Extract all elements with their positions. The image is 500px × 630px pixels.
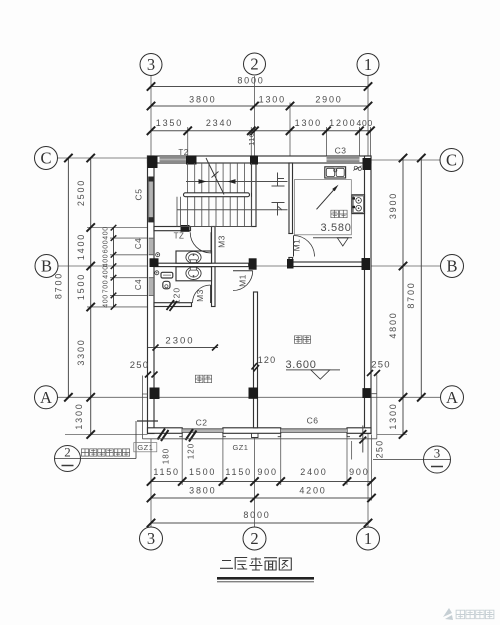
axis line A horizontal [58, 396, 441, 398]
left extension lines [87, 227, 148, 229]
svg-text:4800: 4800 [388, 311, 398, 338]
room label kitchen (chufang) [331, 210, 339, 218]
svg-text:M3: M3 [195, 289, 205, 302]
kitchen sink basin right [336, 168, 344, 176]
axis line C right segment [371, 159, 440, 161]
svg-text:400: 400 [103, 294, 110, 307]
top extension lines [187, 127, 189, 156]
svg-text:8000: 8000 [237, 76, 264, 86]
svg-text:2400: 2400 [300, 467, 327, 477]
kitchen level line [313, 237, 352, 239]
break mark bathroom bottom wall [167, 300, 175, 310]
title er-ceng-ping-mian-tu [220, 561, 233, 569]
kitchen inner floor rectangle [294, 180, 351, 235]
svg-text:A: A [446, 388, 458, 407]
svg-text:1400: 1400 [76, 233, 86, 260]
stair break diagonal [206, 158, 224, 195]
kitchen stove knobs [353, 197, 355, 199]
svg-text:600: 600 [103, 240, 110, 253]
axis bubble B left [35, 255, 58, 278]
living level triangle [311, 370, 330, 379]
svg-text:1350: 1350 [156, 118, 183, 128]
svg-text:120: 120 [186, 443, 195, 459]
svg-text:C2: C2 [196, 418, 208, 428]
svg-text:3: 3 [434, 446, 441, 461]
axis line B passage segment [257, 265, 290, 267]
svg-text:3: 3 [147, 529, 155, 548]
kitchen direction arrow [317, 187, 337, 209]
svg-text:GZ1: GZ1 [233, 443, 249, 452]
dim 250 bottom-right line [362, 426, 364, 453]
bathroom floor drain lower [155, 271, 159, 275]
stair label up (shang) [272, 173, 285, 187]
bathroom squat toilet [163, 281, 170, 289]
door M1 kitchen arc [294, 236, 315, 257]
detail bubble right stub [351, 441, 353, 460]
leader line detail bubble left [55, 458, 137, 460]
column top-right corner [363, 158, 372, 170]
svg-text:C: C [446, 151, 457, 170]
svg-text:1: 1 [364, 55, 372, 74]
svg-text:400: 400 [103, 254, 110, 267]
window C3 top wall [327, 158, 360, 161]
bathroom upper basin [186, 251, 201, 263]
axis line 3 vertical [150, 76, 152, 156]
svg-text:C4: C4 [134, 279, 143, 290]
wall kitchen left door jamb caps [288, 233, 293, 235]
door M3 upper leaf [210, 232, 212, 253]
wall kitchen left upper [289, 163, 293, 234]
svg-text:TZ: TZ [174, 232, 185, 241]
axis bubble A left [35, 386, 58, 409]
watermark text [456, 610, 465, 619]
svg-text:900: 900 [349, 467, 369, 477]
title underline thin [217, 581, 314, 583]
column stair bottom [181, 225, 190, 232]
svg-text:2900: 2900 [315, 95, 342, 105]
door M1 hall arc [233, 271, 253, 291]
right dimension chain line [402, 158, 404, 435]
left inner dimension chain [113, 228, 115, 307]
svg-text:3.600: 3.600 [285, 359, 316, 371]
wall middle vertical [254, 292, 258, 428]
axis line B right segment [371, 265, 441, 267]
GZ1 break mark left a [158, 429, 166, 440]
svg-text:GZ1: GZ1 [137, 443, 153, 452]
svg-text:4200: 4200 [299, 486, 326, 496]
top dimension line row2 [151, 105, 368, 107]
wall bathroom bottom [154, 303, 192, 307]
svg-text:1150: 1150 [153, 467, 180, 477]
door M1 kitchen leaf [293, 236, 295, 257]
svg-text:C6: C6 [307, 416, 319, 426]
svg-text:400: 400 [357, 118, 374, 128]
axis line B left segment [58, 265, 148, 267]
svg-text:8700: 8700 [406, 281, 416, 308]
svg-text:120: 120 [258, 355, 277, 365]
wall kitchen left stub [289, 258, 293, 263]
top dimension line row3 [151, 130, 371, 132]
column middle axis A [249, 388, 259, 399]
stair direction line up [186, 181, 288, 183]
bathroom floor drain upper [156, 253, 160, 257]
wall axis B kitchen segment [288, 262, 365, 267]
bathroom lower vanity counter [176, 267, 212, 281]
svg-text:2500: 2500 [76, 179, 86, 206]
kitchen stove inner [353, 196, 363, 212]
svg-text:B: B [41, 257, 52, 276]
stair second arrowhead [228, 179, 236, 184]
axis line 2 vertical [254, 76, 256, 156]
bottom dimension line row3 [151, 522, 368, 524]
axis line C left segment [58, 157, 148, 159]
svg-text:3: 3 [147, 55, 155, 74]
dim 250 right wall ticks [367, 370, 373, 376]
column left wall axis B [150, 258, 159, 267]
wall bathroom right [212, 227, 216, 307]
window C5 end caps [148, 177, 154, 182]
stair break jog [212, 172, 219, 178]
window C4 upper left wall [149, 238, 154, 255]
axis bubble 1 top [357, 54, 379, 76]
svg-text:3.580: 3.580 [320, 222, 351, 234]
door M1 hall leaf [233, 270, 253, 272]
bathroom lower basin tap [190, 267, 196, 270]
svg-text:8700: 8700 [54, 272, 64, 299]
svg-text:1300: 1300 [259, 95, 286, 105]
wall left exterior [148, 156, 155, 434]
wall stair right [252, 163, 257, 227]
wall axis B left segment [154, 263, 249, 266]
bottom dimension line row2 [151, 497, 372, 499]
svg-text:3800: 3800 [189, 95, 216, 105]
svg-text:B: B [446, 257, 457, 276]
svg-text:250: 250 [130, 360, 149, 371]
axis bubble 3 bottom [140, 527, 163, 550]
svg-text:1150: 1150 [225, 467, 252, 477]
GZ1 break mark left b [186, 429, 194, 440]
wall bottom segment left [148, 428, 183, 434]
bottom middle wall foot [252, 433, 259, 437]
column left wall axis A [150, 388, 160, 400]
stair lower flight edge line [181, 226, 252, 228]
svg-text:M1: M1 [238, 274, 248, 287]
window T2 top wall [160, 158, 187, 161]
axis bubble 2 top [244, 53, 266, 75]
svg-text:M1: M1 [292, 239, 302, 252]
wall bottom segment right [347, 428, 371, 434]
axis bubble 3 top [140, 54, 162, 76]
svg-text:400: 400 [103, 226, 110, 239]
kitchen sink tap [334, 169, 337, 172]
svg-text:1500: 1500 [76, 273, 86, 300]
detail bubble 2 circle [55, 446, 81, 472]
svg-text:1300: 1300 [388, 402, 398, 429]
living level line [286, 369, 340, 371]
eave outline second floor [142, 375, 376, 439]
svg-text:A: A [40, 388, 52, 407]
left dimension line 8700 [67, 158, 69, 397]
bottom dimension line row1 [151, 481, 372, 483]
svg-text:900: 900 [257, 467, 277, 477]
wall bottom segment middle [223, 428, 281, 434]
svg-text:250: 250 [371, 360, 390, 371]
stair direction line down [177, 209, 288, 211]
window C6 bottom wall [281, 429, 347, 433]
svg-text:700: 700 [103, 280, 110, 293]
wall stair bottom [154, 227, 191, 231]
svg-text:1300: 1300 [74, 402, 84, 429]
bathroom upper vanity counter [176, 251, 212, 263]
column top wall axis2 [250, 156, 258, 165]
column top-left corner [148, 156, 158, 168]
bathroom lower basin [186, 267, 201, 279]
stair upper flight treads [188, 163, 252, 193]
label line-only-second-floor [81, 449, 88, 456]
stair up arrowhead [199, 179, 207, 184]
axis bubble C right [440, 149, 463, 172]
column middle axis B [249, 258, 257, 269]
svg-text:3900: 3900 [388, 192, 398, 219]
svg-text:2340: 2340 [206, 118, 233, 128]
svg-text:C5: C5 [134, 189, 144, 201]
axis bubble B right [441, 255, 464, 278]
svg-text:1: 1 [364, 529, 372, 548]
column right wall axis A [362, 388, 370, 398]
door M3 lower arc [193, 285, 211, 303]
svg-text:1500: 1500 [189, 467, 216, 477]
bottom extension lines [181, 435, 183, 486]
axis line 1 vertical [367, 76, 369, 156]
svg-text:M3: M3 [217, 235, 227, 248]
kitchen sink counter [325, 167, 346, 178]
axis bubble 2 bottom [243, 527, 266, 550]
svg-text:1200: 1200 [329, 118, 356, 128]
svg-text:2300: 2300 [165, 336, 194, 347]
detail bubble 3 circle [424, 446, 451, 473]
kitchen stove burner lower [356, 205, 362, 211]
detail bubble 2 dash [62, 465, 74, 467]
kitchen stove burner upper [356, 198, 362, 204]
svg-text:3300: 3300 [76, 338, 86, 365]
svg-text:C: C [40, 149, 51, 168]
bathroom upper basin inner [189, 254, 199, 262]
svg-text:T2: T2 [178, 148, 188, 157]
wall right exterior [365, 156, 372, 434]
svg-text:110: 110 [247, 132, 256, 145]
axis bubble A right [441, 386, 464, 409]
left dimension chain line [90, 158, 92, 435]
svg-text:250: 250 [375, 440, 385, 459]
dim 2300 line [148, 347, 218, 349]
bathroom lower basin inner [189, 269, 199, 277]
leader line detail bubble right [373, 459, 451, 461]
svg-text:8000: 8000 [243, 510, 270, 520]
axis bubble 1 bottom [357, 527, 380, 550]
window C5 left wall [149, 177, 154, 223]
right extension line bottom [377, 434, 407, 436]
bathroom upper basin tap [190, 260, 196, 263]
top dimension line 8000 [151, 86, 368, 88]
axis bubble C left [35, 147, 58, 170]
column top wall T2 [186, 156, 197, 165]
dim 120 middle wall break slashes [252, 363, 258, 370]
svg-text:3800: 3800 [189, 486, 216, 496]
kitchen sink basin left [326, 168, 334, 176]
detail bubble 3 dash [431, 466, 443, 468]
window C2 bottom wall [182, 429, 223, 433]
svg-text:400: 400 [103, 265, 110, 278]
column kitchen-left axis B [287, 259, 294, 269]
wall top exterior [148, 156, 372, 163]
right dimension line 8700 [420, 158, 422, 397]
bathroom washer [161, 272, 173, 278]
window C4 lower left wall [149, 278, 154, 296]
svg-text:C4: C4 [134, 238, 143, 249]
kitchen stove [352, 195, 365, 214]
watermark logo [443, 608, 453, 620]
stair lower flight treads [177, 197, 252, 227]
stair handrail capsule [184, 193, 250, 197]
title underline thick [217, 577, 314, 580]
svg-text:180: 180 [161, 448, 170, 464]
kitchen exhaust symbol [354, 166, 357, 169]
kitchen level triangle [337, 238, 348, 246]
label GZ1 left box [134, 443, 157, 452]
svg-text:1300: 1300 [295, 118, 322, 128]
svg-text:2: 2 [250, 55, 258, 74]
stair label down (xia) [272, 203, 285, 216]
svg-text:C3: C3 [335, 146, 347, 156]
svg-text:2: 2 [64, 445, 71, 460]
dim 250 left wall ticks [145, 372, 151, 378]
room label living (keting) [294, 336, 302, 344]
door M3 upper bathroom arc [190, 232, 211, 253]
bottom wall feet [179, 433, 350, 436]
column right wall axis B [362, 258, 371, 270]
svg-text:2: 2 [250, 529, 258, 548]
room label suite (taofang) [195, 375, 203, 383]
door M3 lower leaf [210, 285, 212, 303]
